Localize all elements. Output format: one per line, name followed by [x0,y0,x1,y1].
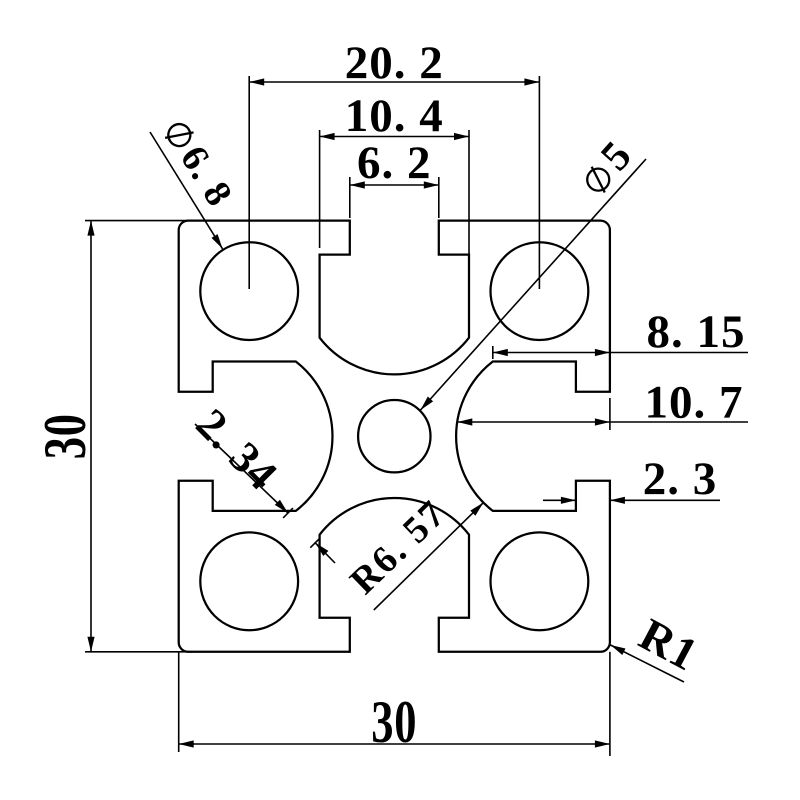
label dia 5 [572,132,641,201]
dim 10.4 [320,136,469,138]
dim 10.7 [457,421,748,423]
dim 6.2 [350,184,439,186]
svg-text:10. 4: 10. 4 [345,90,444,142]
leader 2.34 [195,424,288,513]
svg-text:2. 3: 2. 3 [643,453,718,505]
svg-text:20. 2: 20. 2 [345,37,444,89]
label R1 [631,608,706,680]
dim 8.15 extension line [492,346,494,359]
centre hole [358,400,430,472]
leader R6.57 [374,503,484,611]
dim 30 left [90,221,92,652]
svg-text:6. 2: 6. 2 [357,137,432,189]
corner hole top-left [200,242,298,340]
dim 10.7 extension line [609,398,611,430]
dim 30 bottom [179,743,610,745]
leader dia 6.8 [150,132,223,249]
dim 2.3 [543,499,576,501]
leader dia 5 [420,159,646,410]
svg-text:30: 30 [371,689,417,755]
dim 30 left extension lines [85,220,193,222]
svg-text:10. 7: 10. 7 [645,377,744,429]
label dia 6.8 [157,114,241,214]
dim 10.4 extension lines [319,130,321,248]
corner hole bottom-left [200,532,298,630]
svg-text:6. 8: 6. 8 [172,139,241,215]
leader R1 [611,645,685,682]
svg-text:8. 15: 8. 15 [647,306,746,358]
dim 6.2 extension lines [349,177,351,218]
svg-text:R1: R1 [631,608,706,680]
corner hole top-right [491,242,589,340]
dim 8.15 [493,352,748,354]
label R6.57 [342,492,454,602]
dim 20.2 extension lines [248,76,250,289]
dim 20.2 [249,81,539,83]
profile outline [179,221,610,652]
svg-text:30: 30 [32,413,98,459]
dim 30 bottom extension lines [178,652,180,752]
label 2.34 [187,399,287,499]
leader 2.34 far arrow [315,543,335,563]
svg-text:2. 34: 2. 34 [187,399,287,499]
corner hole bottom-right [491,532,589,630]
